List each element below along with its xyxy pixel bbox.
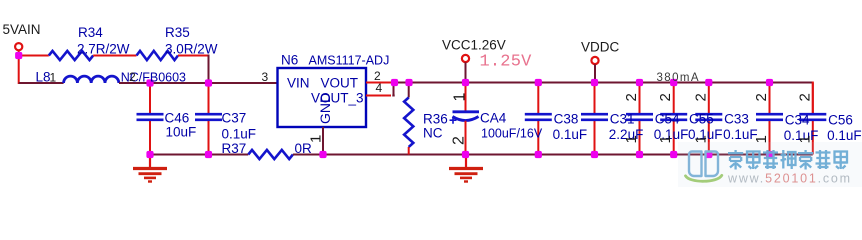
svg-text:100uF/16V: 100uF/16V	[481, 127, 543, 141]
svg-text:C56: C56	[828, 113, 853, 128]
svg-text:C54: C54	[655, 112, 680, 127]
svg-text:C34: C34	[785, 113, 810, 128]
svg-text:0.1uF: 0.1uF	[827, 128, 862, 143]
svg-text:L8: L8	[36, 70, 51, 85]
svg-text:2.7R/2W: 2.7R/2W	[77, 42, 130, 57]
svg-text:2: 2	[692, 93, 709, 101]
svg-text:NC: NC	[423, 126, 443, 141]
svg-text:2: 2	[657, 93, 674, 101]
svg-text:1: 1	[623, 135, 640, 143]
svg-text:VIN: VIN	[287, 76, 310, 91]
svg-text:0.1uF: 0.1uF	[553, 127, 588, 142]
svg-text:C33: C33	[724, 112, 749, 127]
svg-text:4: 4	[376, 81, 383, 95]
svg-text:2: 2	[623, 93, 640, 101]
svg-text:www.520101.com: www.520101.com	[727, 172, 852, 186]
svg-text:10uF: 10uF	[166, 125, 197, 140]
svg-text:0.1uF: 0.1uF	[222, 127, 257, 142]
svg-text:C46: C46	[165, 111, 190, 126]
svg-text:2: 2	[129, 70, 136, 84]
svg-text:N6: N6	[281, 53, 298, 68]
svg-text:C37: C37	[222, 111, 247, 126]
svg-text:380mA: 380mA	[657, 72, 700, 84]
svg-text:VDDC: VDDC	[581, 40, 620, 55]
svg-text:R36: R36	[423, 112, 448, 127]
svg-text:R34: R34	[78, 25, 103, 40]
svg-text:2: 2	[796, 93, 813, 101]
svg-text:C31: C31	[610, 112, 635, 127]
svg-text:R37: R37	[222, 141, 247, 156]
svg-text:1.25V: 1.25V	[480, 53, 533, 72]
svg-text:1: 1	[50, 71, 57, 85]
svg-text:3: 3	[262, 70, 269, 84]
svg-text:3.0R/2W: 3.0R/2W	[165, 42, 218, 57]
svg-text:GND: GND	[317, 93, 333, 124]
svg-text:C38: C38	[554, 112, 579, 127]
svg-text:1: 1	[307, 135, 324, 143]
svg-text:1: 1	[452, 93, 469, 102]
svg-text:VOUT: VOUT	[321, 76, 359, 91]
svg-text:CA4: CA4	[480, 111, 507, 126]
svg-text:VCC1.26V: VCC1.26V	[442, 38, 506, 53]
svg-text:2: 2	[451, 136, 468, 145]
svg-text:R35: R35	[165, 25, 190, 40]
svg-text:2: 2	[753, 93, 770, 101]
svg-text:C55: C55	[689, 112, 714, 127]
svg-text:1: 1	[657, 135, 674, 143]
svg-text:5VAIN: 5VAIN	[3, 22, 41, 37]
svg-text:AMS1117-ADJ: AMS1117-ADJ	[309, 54, 390, 68]
